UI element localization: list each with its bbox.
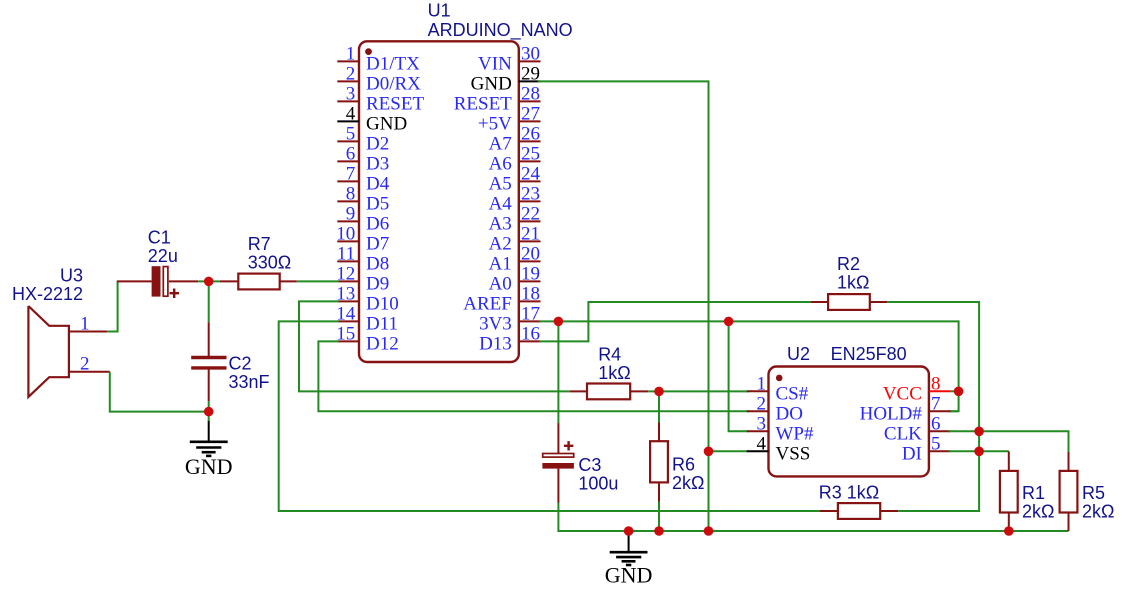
- U1 pin 13 (D10) stub: [337, 300, 359, 302]
- junction dot DI node: [974, 447, 984, 457]
- svg-text:33nF: 33nF: [229, 372, 270, 392]
- svg-text:A4: A4: [489, 193, 513, 214]
- capacitor C2 bottom pin: [208, 368, 210, 401]
- svg-text:2kΩ: 2kΩ: [1022, 502, 1054, 522]
- wire U3 pin1 to C1: [107, 281, 117, 331]
- svg-text:5: 5: [931, 433, 941, 454]
- resistor R7 330ohm left pin: [220, 280, 239, 282]
- svg-text:EN25F80: EN25F80: [831, 344, 907, 364]
- svg-text:D0/RX: D0/RX: [366, 73, 421, 94]
- U1 pin 14 (D11) stub: [337, 320, 359, 322]
- svg-text:1kΩ: 1kΩ: [598, 363, 630, 383]
- wire DI stub to junction: [949, 450, 980, 452]
- wire 3V3 branch down to U2 WP#: [729, 321, 749, 431]
- junction dot GND symbol node: [624, 526, 634, 536]
- svg-text:29: 29: [521, 63, 540, 84]
- junction dot VCC node: [954, 387, 964, 397]
- resistor R4 right pin: [630, 390, 648, 392]
- svg-text:6: 6: [346, 143, 356, 164]
- wire GND vertical to U2 VSS: [709, 450, 749, 452]
- U1 pin 7 (D4) stub: [337, 180, 359, 182]
- ground GND2 bar 3: [622, 560, 636, 563]
- resistor R1 2kohm top pin: [1008, 451, 1010, 471]
- capacitor C3 top plate (outline): [543, 454, 574, 458]
- wire C3 bottom to GND rail: [558, 503, 628, 532]
- svg-text:HOLD#: HOLD#: [860, 403, 923, 424]
- svg-text:5: 5: [346, 123, 356, 144]
- resistor R3 body: [838, 503, 880, 519]
- U1 pin 10 (D7) stub: [337, 240, 359, 242]
- resistor R3 right pin: [880, 510, 898, 512]
- wire U3 pin2 down to GND node: [110, 372, 209, 412]
- C3 plus sign: [564, 445, 574, 447]
- wire U1 D10 (pin13) to R4: [299, 301, 570, 391]
- resistor R4 1kohm left pin: [570, 390, 587, 392]
- svg-text:D6: D6: [366, 213, 389, 234]
- svg-text:+5V: +5V: [478, 113, 512, 134]
- svg-text:21: 21: [521, 223, 540, 244]
- svg-text:2kΩ: 2kΩ: [672, 473, 704, 493]
- svg-text:20: 20: [521, 243, 540, 264]
- U1 pin 4 (GND) stub: [337, 120, 359, 122]
- U1 pin-1 marker dot: [365, 48, 372, 55]
- U1 pin 19 (A0) stub: [519, 280, 541, 282]
- ground symbol GND2 stem: [628, 531, 630, 552]
- wire ground rail: [629, 530, 1069, 532]
- ground symbol GND1 stem: [208, 421, 210, 442]
- svg-text:DO: DO: [776, 403, 803, 424]
- svg-text:VCC: VCC: [883, 383, 922, 404]
- svg-text:D5: D5: [366, 193, 389, 214]
- svg-text:A5: A5: [489, 173, 512, 194]
- wire junction to ground symbol: [208, 412, 210, 422]
- junction dot R1 bottom node: [1004, 526, 1014, 536]
- wire HOLD# stub to 3V3 vertical: [951, 410, 959, 412]
- wire U1 3V3 (pin17) to HOLD# corner: [539, 321, 959, 411]
- svg-text:7: 7: [346, 163, 356, 184]
- U1 pin 3 (RESET) stub: [337, 100, 359, 102]
- U1 pin 26 (A7) stub: [519, 140, 541, 142]
- svg-text:R1: R1: [1022, 483, 1045, 503]
- svg-text:CS#: CS#: [776, 383, 809, 404]
- junction dot R6 bottom node: [654, 526, 664, 536]
- C1 plus sign: [170, 292, 180, 294]
- resistor R6 body: [650, 441, 668, 482]
- U1 pin 21 (A2) stub: [519, 240, 541, 242]
- U1 pin 5 (D2) stub: [337, 140, 359, 142]
- svg-text:A2: A2: [489, 233, 512, 254]
- capacitor C2 top pin: [208, 322, 210, 357]
- U1 pin 30 (VIN) stub: [519, 60, 541, 62]
- U3 pin 1 stub: [69, 331, 107, 333]
- svg-text:WP#: WP#: [776, 423, 815, 444]
- svg-text:R4: R4: [598, 345, 621, 365]
- svg-text:12: 12: [336, 263, 355, 284]
- svg-text:25: 25: [521, 143, 540, 164]
- U1 pin 25 (A6) stub: [519, 160, 541, 162]
- svg-text:R6: R6: [672, 455, 695, 475]
- svg-text:30: 30: [521, 43, 540, 64]
- svg-text:AREF: AREF: [463, 293, 512, 314]
- svg-text:GND: GND: [471, 73, 512, 94]
- svg-text:2: 2: [757, 393, 767, 414]
- U1 pin 12 (D9) stub: [337, 280, 359, 282]
- svg-text:ARDUINO_NANO: ARDUINO_NANO: [428, 20, 573, 41]
- svg-text:4: 4: [757, 433, 767, 454]
- U2 pin 8 (VCC) stub: [929, 390, 951, 392]
- svg-text:HX-2212: HX-2212: [12, 284, 83, 304]
- wire CLK to R5: [949, 431, 1069, 452]
- svg-text:U3: U3: [60, 265, 83, 285]
- ground GND2 bar 2: [616, 556, 641, 559]
- ground GND1 bar 1: [190, 440, 228, 443]
- U1 pin 24 (A5) stub: [519, 180, 541, 182]
- resistor R7 body: [238, 274, 279, 290]
- svg-text:R7: R7: [248, 234, 271, 254]
- U2 pin-1 marker dot: [776, 375, 783, 382]
- svg-text:U1: U1: [428, 1, 451, 21]
- svg-text:GND: GND: [185, 454, 233, 479]
- svg-text:16: 16: [521, 323, 540, 344]
- svg-text:A7: A7: [489, 133, 512, 154]
- capacitor C2 top plate: [191, 356, 226, 359]
- svg-text:A6: A6: [489, 153, 512, 174]
- U1 pin 29 (GND) stub: [519, 80, 541, 82]
- wire 3V3 down to C3: [557, 321, 559, 423]
- U1 pin 18 (AREF) stub: [519, 300, 541, 302]
- svg-text:VIN: VIN: [478, 53, 512, 74]
- svg-text:19: 19: [521, 263, 540, 284]
- wire U1 GND (pin29) down to rail: [538, 81, 709, 531]
- wire U1 D11 (pin14) to R3: [279, 321, 820, 511]
- ground GND2 bar 4: [626, 564, 631, 567]
- svg-text:9: 9: [346, 203, 356, 224]
- U1 pin 27 (+5V) stub: [519, 120, 541, 122]
- svg-text:CLK: CLK: [884, 423, 922, 444]
- wire U1 D12 (pin15) to U2 DO: [318, 341, 748, 411]
- U2 pin 5 (DI) stub: [929, 450, 951, 452]
- svg-text:1: 1: [346, 43, 356, 64]
- svg-text:14: 14: [336, 303, 356, 324]
- svg-text:22: 22: [521, 203, 540, 224]
- svg-text:28: 28: [521, 83, 540, 104]
- svg-text:3V3: 3V3: [479, 313, 512, 334]
- junction dot CLK node: [974, 427, 984, 437]
- capacitor C1 right plate (outline): [163, 267, 168, 297]
- capacitor C1 right pin: [169, 280, 198, 282]
- svg-text:U2: U2: [787, 344, 810, 364]
- svg-text:1: 1: [757, 373, 767, 394]
- U1 pin 23 (A4) stub: [519, 200, 541, 202]
- wire R4 to U2 CS#: [648, 390, 749, 392]
- svg-text:D8: D8: [366, 253, 389, 274]
- U1 pin 11 (D8) stub: [337, 260, 359, 262]
- svg-text:26: 26: [521, 123, 540, 144]
- U1 pin 16 (D13) stub: [519, 340, 541, 342]
- svg-text:C3: C3: [578, 455, 601, 475]
- U2 pin 4 (VSS) stub: [747, 450, 769, 452]
- svg-text:6: 6: [931, 413, 941, 434]
- svg-text:D7: D7: [366, 233, 389, 254]
- svg-text:D1/TX: D1/TX: [366, 53, 420, 74]
- svg-text:24: 24: [521, 163, 541, 184]
- U1 pin 15 (D12) stub: [337, 340, 359, 342]
- resistor R4 body: [587, 384, 630, 400]
- svg-text:23: 23: [521, 183, 540, 204]
- resistor R2 right pin: [870, 301, 888, 303]
- svg-text:330Ω: 330Ω: [248, 253, 292, 273]
- resistor R2 1kohm left pin: [811, 301, 828, 303]
- svg-text:10: 10: [336, 223, 355, 244]
- resistor R1 body: [1000, 471, 1018, 513]
- ground GND1 bar 2: [196, 446, 221, 449]
- U2 pin 3 (WP#) stub: [747, 430, 769, 432]
- svg-text:D9: D9: [366, 273, 389, 294]
- svg-text:3: 3: [757, 413, 767, 434]
- svg-text:VSS: VSS: [776, 443, 811, 464]
- svg-text:A3: A3: [489, 213, 512, 234]
- svg-text:13: 13: [336, 283, 355, 304]
- resistor R5 body: [1060, 471, 1078, 513]
- svg-text:18: 18: [521, 283, 540, 304]
- svg-text:4: 4: [346, 103, 356, 124]
- wire junction down to R6: [658, 391, 660, 422]
- speaker U3 HX-2212 body: [28, 306, 69, 397]
- svg-text:1: 1: [80, 313, 90, 334]
- svg-text:D12: D12: [366, 333, 399, 354]
- wire VCC stub to junction: [951, 390, 959, 392]
- U2 pin 6 (CLK) stub: [929, 430, 951, 432]
- wire U1 D13 (pin16) to R2: [539, 302, 811, 341]
- svg-text:RESET: RESET: [366, 93, 424, 114]
- wire R2 to CLK/DI junctions: [887, 302, 979, 451]
- svg-text:27: 27: [521, 103, 540, 124]
- svg-text:RESET: RESET: [454, 93, 512, 114]
- svg-text:D11: D11: [366, 313, 398, 334]
- svg-text:DI: DI: [902, 443, 922, 464]
- wire R7 to U1 pin 12 D9: [297, 280, 339, 282]
- svg-text:R3 1kΩ: R3 1kΩ: [819, 483, 879, 503]
- U1 pin 9 (D6) stub: [337, 220, 359, 222]
- svg-text:A1: A1: [489, 253, 512, 274]
- resistor R2 body: [828, 294, 870, 310]
- U1 pin 20 (A1) stub: [519, 260, 541, 262]
- junction dot VSS node: [704, 447, 714, 457]
- U2 pin 2 (DO) stub: [747, 410, 769, 412]
- capacitor C3 100u top pin: [557, 423, 559, 453]
- svg-text:7: 7: [931, 393, 941, 414]
- svg-text:15: 15: [336, 323, 355, 344]
- wire DI junction to R1 top: [979, 450, 1009, 452]
- svg-text:1kΩ: 1kΩ: [837, 273, 869, 293]
- svg-text:2: 2: [80, 353, 90, 374]
- svg-text:100u: 100u: [578, 473, 618, 493]
- ground GND1 bar 4: [206, 455, 211, 458]
- junction dot R4/R6/CS# node: [654, 387, 664, 397]
- svg-text:GND: GND: [605, 563, 653, 588]
- svg-text:C2: C2: [229, 353, 252, 373]
- svg-text:D13: D13: [479, 333, 512, 354]
- junction dot 3V3/WP# node: [724, 317, 734, 327]
- resistor R7 right pin: [280, 280, 297, 282]
- U1 pin 2 (D0/RX) stub: [337, 80, 359, 82]
- capacitor C2 bottom plate: [191, 366, 226, 369]
- resistor R5 bottom pin: [1068, 512, 1070, 531]
- wire R6 bottom to GND rail: [658, 502, 660, 532]
- capacitor C3 bottom plate (filled): [542, 463, 574, 469]
- svg-text:8: 8: [346, 183, 356, 204]
- U1 pin 8 (D5) stub: [337, 200, 359, 202]
- svg-text:3: 3: [346, 83, 356, 104]
- junction dot 3V3/C3 node: [554, 317, 564, 327]
- svg-text:R2: R2: [837, 254, 860, 274]
- svg-text:D3: D3: [366, 153, 389, 174]
- svg-text:2: 2: [346, 63, 356, 84]
- svg-text:GND: GND: [366, 113, 407, 134]
- svg-text:R5: R5: [1082, 483, 1105, 503]
- svg-text:22u: 22u: [148, 246, 178, 266]
- junction dot GND vertical node: [704, 526, 714, 536]
- wire C2 bottom to GND node: [208, 401, 210, 411]
- wire junction down to C2: [208, 281, 210, 322]
- U2 pin 7 (HOLD#) stub: [929, 410, 951, 412]
- wire R3 to DI junction: [898, 451, 979, 511]
- ground GND1 bar 3: [202, 451, 216, 454]
- U1 pin 28 (RESET) stub: [519, 100, 541, 102]
- svg-text:D4: D4: [366, 173, 390, 194]
- capacitor C1 left plate (filled): [152, 266, 161, 296]
- resistor R3 1kohm left pin: [820, 510, 838, 512]
- resistor R5 2kohm top pin: [1068, 452, 1070, 471]
- U1 pin 1 (D1/TX) stub: [337, 60, 359, 62]
- U2 pin 1 (CS#) stub: [747, 390, 769, 392]
- resistor R6 bottom pin: [658, 482, 660, 501]
- capacitor C1 22u left pin: [117, 280, 152, 282]
- resistor R1 bottom pin: [1008, 512, 1010, 531]
- svg-text:17: 17: [521, 303, 540, 324]
- junction dot C1/R7/C2 node: [204, 277, 214, 287]
- wire C1 to R7 through junction: [198, 280, 220, 282]
- ground GND2 bar 1: [610, 551, 648, 554]
- IC U2 EN25F80 flash body: [769, 367, 929, 477]
- svg-text:8: 8: [931, 373, 941, 394]
- svg-text:11: 11: [337, 243, 355, 264]
- U1 pin 6 (D3) stub: [337, 160, 359, 162]
- svg-text:A0: A0: [489, 273, 512, 294]
- U1 pin 17 (3V3) stub: [519, 320, 541, 322]
- U3 pin 2 stub: [69, 371, 110, 373]
- IC U1 ARDUINO_NANO body: [359, 41, 519, 362]
- svg-text:D2: D2: [366, 133, 389, 154]
- svg-text:2kΩ: 2kΩ: [1082, 502, 1114, 522]
- resistor R6 2kohm top pin: [658, 423, 660, 442]
- U1 pin 22 (A3) stub: [519, 220, 541, 222]
- svg-text:D10: D10: [366, 293, 399, 314]
- svg-text:C1: C1: [148, 228, 171, 248]
- capacitor C3 bottom pin: [557, 469, 559, 503]
- junction dot C2/speaker GND node: [204, 407, 214, 417]
